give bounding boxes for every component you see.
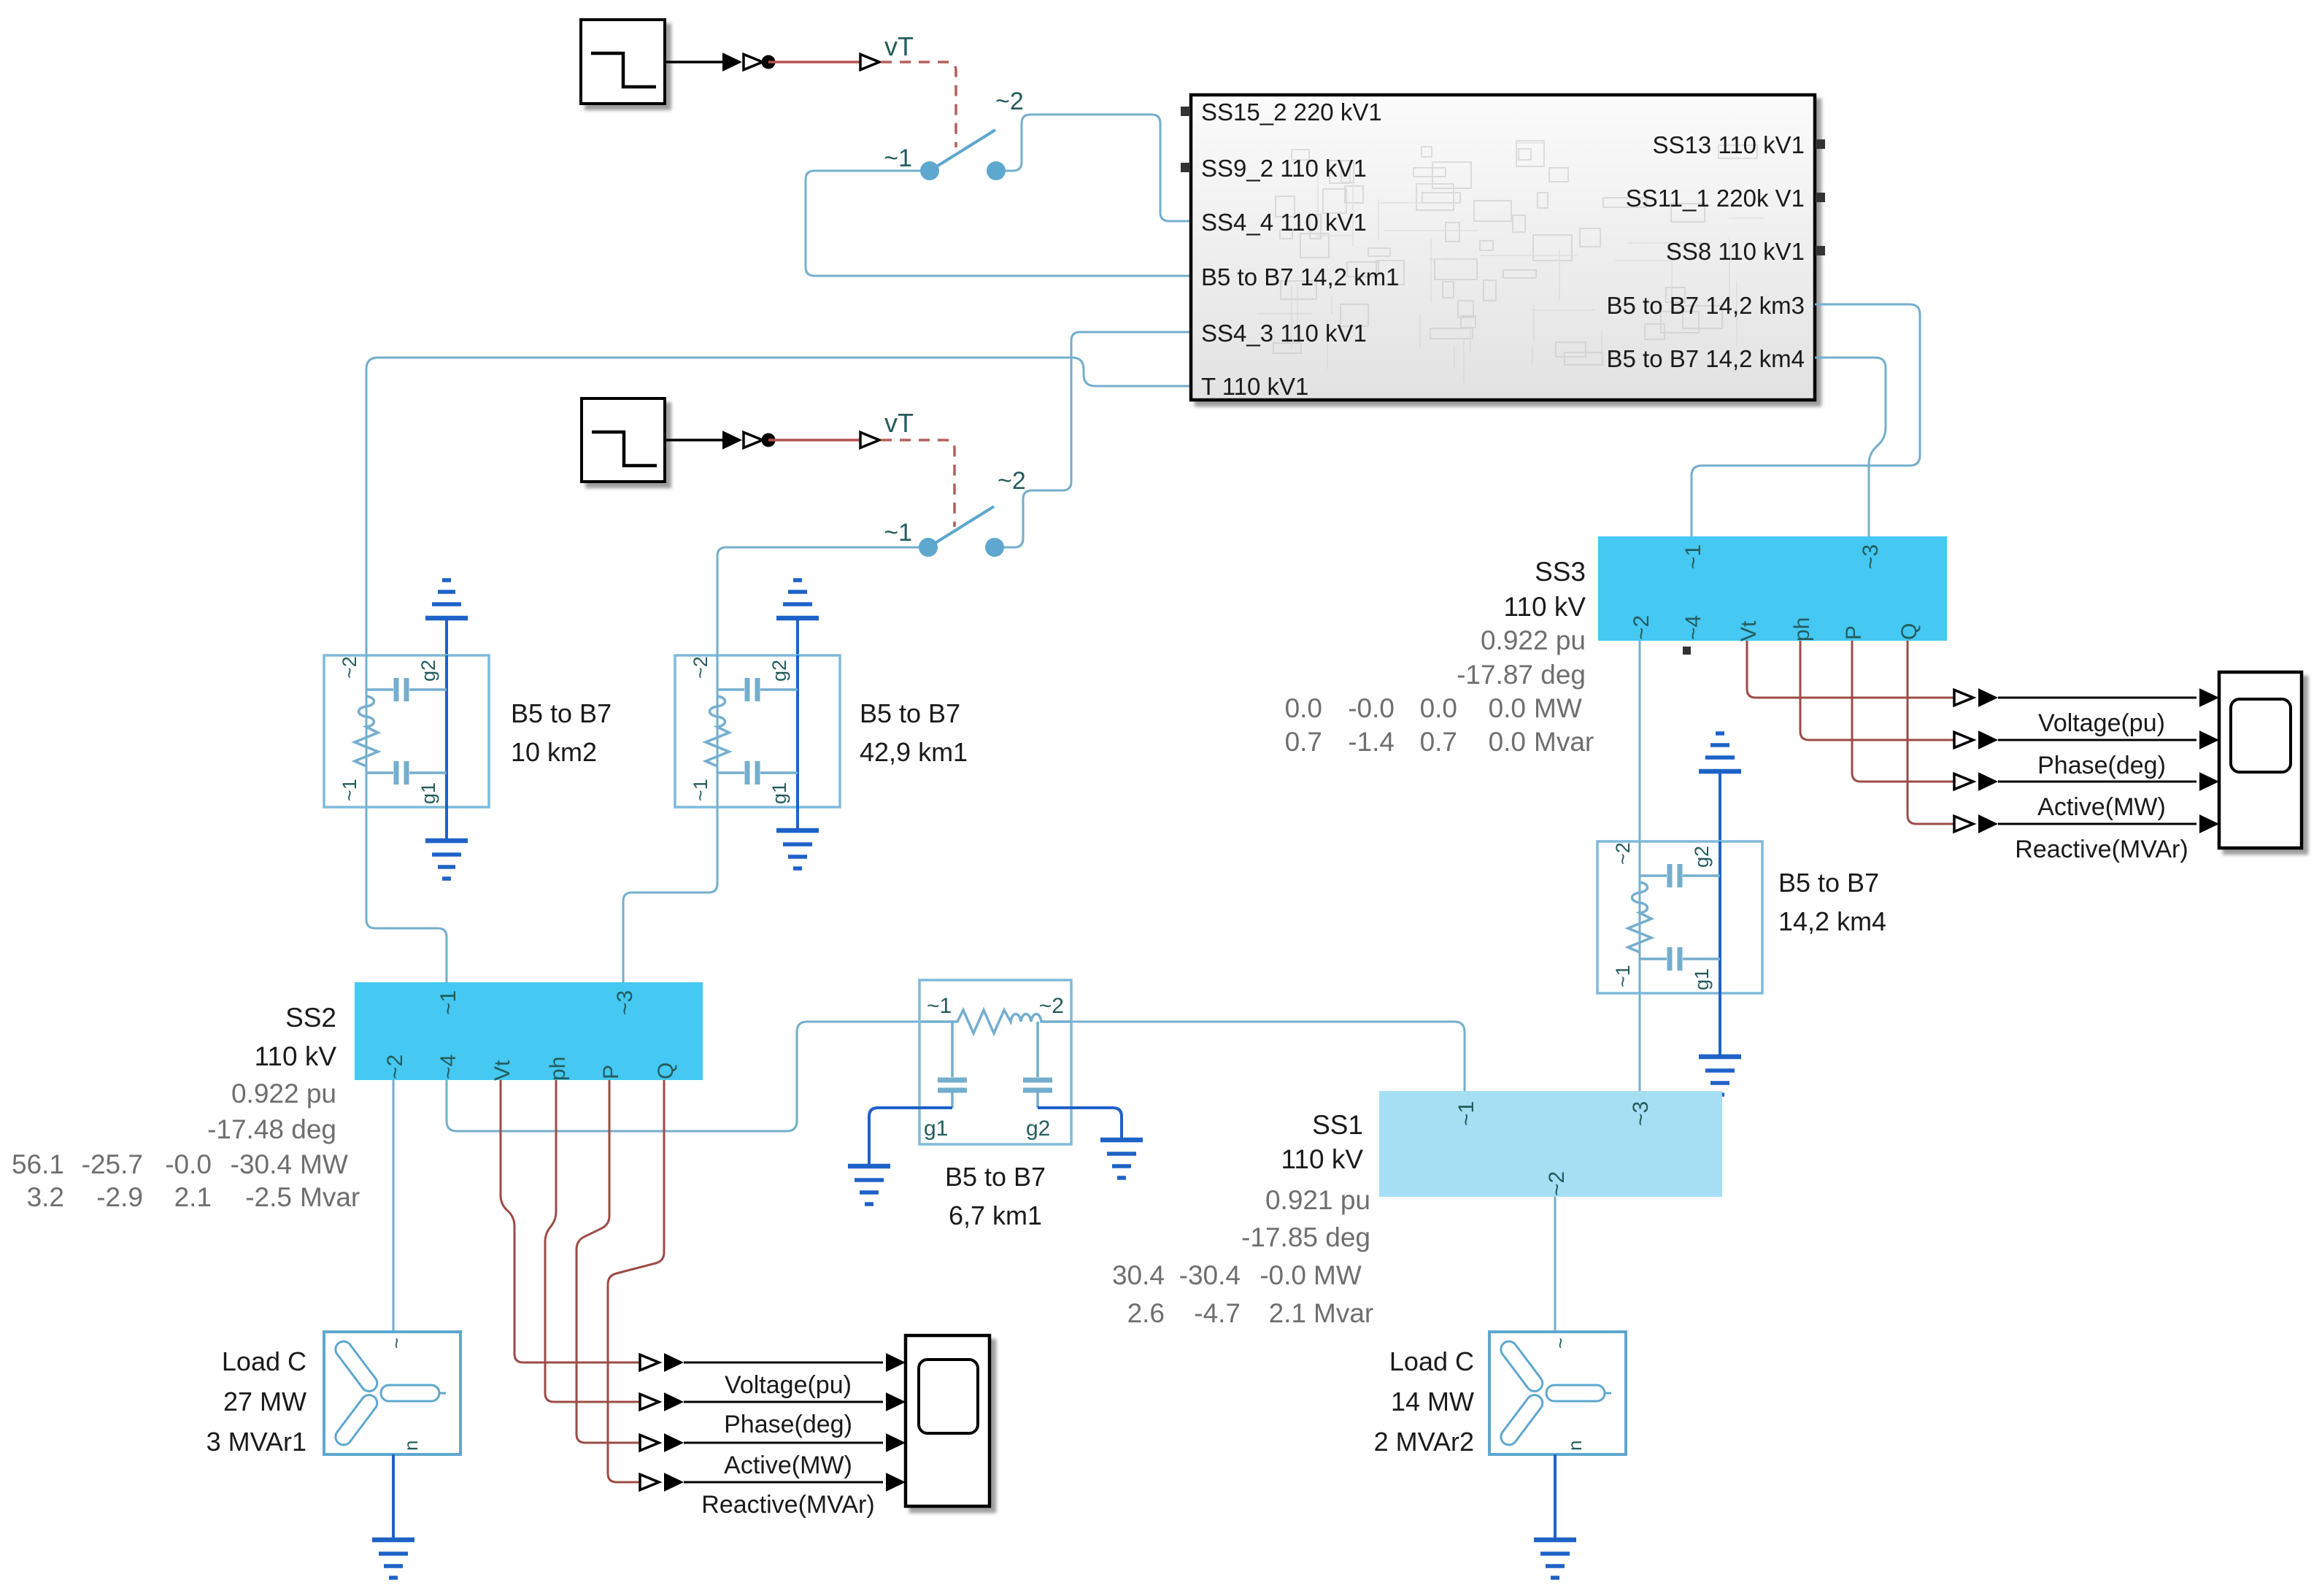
svg-text:0.0: 0.0 bbox=[1285, 693, 1322, 723]
svg-text:Q: Q bbox=[1897, 623, 1921, 640]
svg-text:30.4: 30.4 bbox=[1112, 1260, 1165, 1290]
svg-text:~1: ~1 bbox=[1681, 544, 1705, 569]
svg-text:~1: ~1 bbox=[927, 994, 952, 1018]
svg-text:~2: ~2 bbox=[690, 656, 711, 679]
ground right of line 6,7 km1 bbox=[1100, 1138, 1143, 1143]
svg-text:T 110 kV1: T 110 kV1 bbox=[1201, 373, 1308, 400]
svg-text:Mvar: Mvar bbox=[1314, 1298, 1373, 1328]
wire: SS2 Vt to Voltage label bbox=[501, 1080, 643, 1362]
svg-text:3 MVAr1: 3 MVAr1 bbox=[207, 1427, 306, 1457]
ground above line 14,2 km4 (g2) bbox=[1699, 769, 1741, 774]
svg-text:110 kV: 110 kV bbox=[1504, 592, 1586, 622]
svg-text:B5 to B7: B5 to B7 bbox=[1778, 868, 1879, 898]
ground below Load C 14MW bbox=[1534, 1538, 1576, 1543]
signal label row Active(MW) (bottom) bbox=[640, 1435, 659, 1450]
ground wire below Load C 27MW bbox=[392, 1454, 395, 1540]
ground wire g2 of line 6,7 km1 bbox=[1038, 1108, 1122, 1140]
svg-text:SS8 110 kV1: SS8 110 kV1 bbox=[1666, 238, 1805, 265]
svg-text:B5 to B7: B5 to B7 bbox=[511, 698, 612, 728]
svg-text:MW: MW bbox=[1314, 1260, 1362, 1290]
svg-text:0.922 pu: 0.922 pu bbox=[1481, 625, 1586, 655]
svg-text:~2: ~2 bbox=[1629, 615, 1654, 640]
svg-text:vT: vT bbox=[884, 31, 914, 61]
svg-text:g2: g2 bbox=[417, 660, 439, 682]
svg-text:g1: g1 bbox=[924, 1117, 948, 1141]
svg-text:Active(MW): Active(MW) bbox=[724, 1452, 852, 1479]
wire: SS2 ~3 up through line 42,9 km1 bbox=[623, 655, 717, 982]
wire: breaker2 ~2 to subsystem port SS4_3 110 kV1 bbox=[995, 332, 1191, 547]
wire: SS3 ph to Phase label bbox=[1800, 641, 1955, 740]
svg-text:P: P bbox=[1842, 625, 1866, 640]
svg-text:Mvar: Mvar bbox=[1534, 727, 1594, 757]
signal label row Reactive(MVAr) (right) bbox=[1954, 816, 1973, 831]
faint subsystem preview content bbox=[1257, 141, 1764, 382]
wire: line 6,7 km1 ~2 to SS1 ~1 bbox=[1071, 1022, 1465, 1091]
subsystem output port stub SS13 bbox=[1816, 139, 1825, 149]
svg-text:-30.4: -30.4 bbox=[231, 1149, 292, 1179]
svg-text:Reactive(MVAr): Reactive(MVAr) bbox=[701, 1491, 874, 1519]
distributed line block B5 to B7 10 km2 bbox=[324, 655, 489, 807]
dashed control wire to breaker 2 bbox=[881, 440, 954, 527]
svg-text:Reactive(MVAr): Reactive(MVAr) bbox=[2015, 836, 2188, 863]
ground below line 10 km2 bbox=[445, 807, 448, 841]
svg-text:~3: ~3 bbox=[613, 990, 637, 1015]
svg-text:ph: ph bbox=[1790, 617, 1814, 641]
breaker 1 contact dots bbox=[920, 161, 939, 180]
bus block SS1 bbox=[1379, 1091, 1722, 1197]
svg-text:Active(MW): Active(MW) bbox=[2037, 793, 2166, 821]
svg-text:Mvar: Mvar bbox=[300, 1182, 360, 1212]
svg-text:-17.85 deg: -17.85 deg bbox=[1241, 1222, 1370, 1252]
svg-text:MW: MW bbox=[300, 1149, 348, 1179]
svg-text:0.0: 0.0 bbox=[1489, 693, 1526, 723]
wire: SS2 ~1 up through line 10 km2 bbox=[366, 655, 447, 982]
step source block Step1 bbox=[581, 20, 665, 104]
svg-text:B5 to B7 14,2 km4: B5 to B7 14,2 km4 bbox=[1607, 345, 1805, 372]
scope block (bottom) bbox=[906, 1335, 990, 1506]
wire: SS3 Q to Reactive label bbox=[1908, 641, 1955, 824]
svg-text:ph: ph bbox=[546, 1057, 570, 1081]
ground below line 14,2 km4 (g1) bbox=[1719, 993, 1721, 1057]
svg-text:SS13 110 kV1: SS13 110 kV1 bbox=[1652, 131, 1805, 158]
bus block SS2 bbox=[355, 982, 703, 1080]
svg-text:27 MW: 27 MW bbox=[223, 1387, 306, 1416]
ground above line 10 km2 bbox=[425, 616, 468, 621]
load block Load C 14 MW 2 MVAr2 bbox=[1489, 1332, 1626, 1454]
wire: port B5 to B7 14,2 km4 to SS3 ~3 bbox=[1815, 358, 1886, 536]
svg-text:Load C: Load C bbox=[222, 1346, 306, 1376]
svg-text:6,7 km1: 6,7 km1 bbox=[949, 1200, 1042, 1230]
svg-text:~2: ~2 bbox=[383, 1055, 407, 1079]
svg-text:g1: g1 bbox=[1691, 968, 1713, 990]
vT tag open triangle 2 bbox=[860, 432, 879, 447]
signal label row Reactive(MVAr) (bottom) bbox=[640, 1474, 659, 1489]
wire: breaker2 ~1 down to line 42,9 km1 bbox=[717, 547, 928, 655]
svg-text:~2: ~2 bbox=[998, 467, 1026, 495]
wire: Step2 output to converter bbox=[664, 439, 724, 442]
svg-text:~2: ~2 bbox=[1612, 842, 1634, 865]
signal arrowhead into conversion bbox=[722, 53, 742, 72]
ground left of line 6,7 km1 bbox=[848, 1164, 890, 1169]
svg-text:B5 to B7 14,2 km3: B5 to B7 14,2 km3 bbox=[1607, 292, 1805, 319]
svg-text:Voltage(pu): Voltage(pu) bbox=[725, 1371, 852, 1399]
svg-text:42,9 km1: 42,9 km1 bbox=[860, 737, 968, 767]
svg-text:-17.87 deg: -17.87 deg bbox=[1457, 660, 1586, 690]
svg-text:~2: ~2 bbox=[995, 88, 1024, 115]
ground wire g1 of line 6,7 km1 bbox=[869, 1108, 952, 1166]
svg-text:56.1: 56.1 bbox=[12, 1149, 64, 1179]
svg-text:-17.48 deg: -17.48 deg bbox=[207, 1114, 336, 1144]
svg-text:-0.0: -0.0 bbox=[1348, 693, 1395, 723]
svg-text:B5 to B7: B5 to B7 bbox=[860, 698, 960, 728]
bus block SS3 bbox=[1598, 536, 1947, 641]
svg-text:~1: ~1 bbox=[1612, 965, 1634, 987]
wire: line 10 km2 top up and right into subsystem port T 110 kV1 bbox=[366, 358, 1191, 655]
wire: SS2 ~2 down to Load C 27MW bbox=[393, 1080, 395, 1332]
svg-text:-1.4: -1.4 bbox=[1348, 727, 1395, 757]
svg-text:0.0: 0.0 bbox=[1420, 693, 1457, 723]
vT tag open triangle bbox=[860, 54, 879, 69]
svg-text:~1: ~1 bbox=[690, 779, 711, 801]
svg-text:0.7: 0.7 bbox=[1420, 727, 1457, 757]
svg-text:~1: ~1 bbox=[1454, 1101, 1478, 1126]
svg-text:Load C: Load C bbox=[1389, 1346, 1474, 1376]
wire: breaker1 ~2 to subsystem port SS4_4 110 kV1 bbox=[996, 115, 1191, 221]
svg-text:~1: ~1 bbox=[436, 990, 460, 1015]
SS3 unconnected port stub ~4 bbox=[1683, 647, 1691, 655]
svg-text:SS1: SS1 bbox=[1312, 1110, 1363, 1140]
svg-text:~4: ~4 bbox=[1681, 615, 1705, 640]
signal label row Voltage(pu) (right) bbox=[1954, 690, 1973, 705]
wire: control signal to vT tag 2 bbox=[768, 439, 860, 442]
svg-text:-4.7: -4.7 bbox=[1194, 1298, 1241, 1328]
ground wire below Load C 14MW bbox=[1554, 1454, 1557, 1540]
svg-text:-30.4: -30.4 bbox=[1179, 1260, 1241, 1290]
wire: SS3 P to Active label bbox=[1852, 641, 1955, 782]
svg-text:B5 to B7 14,2 km1: B5 to B7 14,2 km1 bbox=[1201, 263, 1400, 290]
svg-text:~1: ~1 bbox=[884, 519, 912, 547]
ground below Load C 27MW bbox=[372, 1538, 414, 1543]
signal label row Phase(deg) (right) bbox=[1954, 732, 1973, 747]
svg-text:0.922 pu: 0.922 pu bbox=[231, 1079, 336, 1109]
svg-text:SS15_2 220 kV1: SS15_2 220 kV1 bbox=[1201, 99, 1382, 126]
wire: SS2 ph to Phase label bbox=[545, 1080, 643, 1402]
breaker 1 blade bbox=[930, 130, 995, 171]
svg-text:0.0: 0.0 bbox=[1489, 727, 1526, 757]
svg-text:~1: ~1 bbox=[339, 779, 360, 801]
scope block (right) bbox=[2219, 672, 2302, 848]
wire: SS2 Q to Reactive label bbox=[608, 1080, 664, 1482]
svg-text:g1: g1 bbox=[417, 782, 439, 804]
distributed line block B5 to B7 42,9 km1 bbox=[675, 655, 840, 807]
svg-text:~2: ~2 bbox=[1039, 994, 1064, 1018]
svg-text:vT: vT bbox=[884, 408, 914, 438]
svg-text:~: ~ bbox=[385, 1338, 407, 1349]
signal label row Active(MW) (right) bbox=[1954, 774, 1973, 789]
svg-text:g2: g2 bbox=[1026, 1117, 1050, 1141]
svg-text:SS2: SS2 bbox=[285, 1003, 336, 1033]
svg-text:Vt: Vt bbox=[1737, 620, 1761, 641]
wire: breaker1 ~1 to subsystem port B5 to B7 14,2 km1 bbox=[806, 171, 1191, 276]
svg-text:g1: g1 bbox=[768, 782, 790, 804]
subsystem input port stub SS15_2 bbox=[1181, 107, 1190, 116]
svg-text:SS11_1 220k V1: SS11_1 220k V1 bbox=[1626, 185, 1805, 212]
wire: SS2 ~4 to line 6,7 km1 ~1 bbox=[447, 1022, 921, 1131]
svg-text:Phase(deg): Phase(deg) bbox=[2037, 752, 2166, 779]
wire: Step1 output to converter bbox=[665, 61, 724, 63]
ground below line 42,9 km1 bbox=[796, 807, 799, 830]
svg-text:-0.0: -0.0 bbox=[165, 1149, 212, 1179]
ground above line 42,9 km1 bbox=[776, 616, 819, 621]
distributed line block B5 to B7 6,7 km1 bbox=[919, 980, 1071, 1144]
svg-text:MW: MW bbox=[1534, 693, 1582, 723]
dashed control wire to breaker 1 bbox=[881, 62, 956, 147]
signal label row Voltage(pu) (bottom) bbox=[640, 1354, 659, 1370]
svg-text:-25.7: -25.7 bbox=[82, 1149, 143, 1179]
svg-text:3.2: 3.2 bbox=[27, 1182, 64, 1212]
svg-text:0.7: 0.7 bbox=[1285, 727, 1322, 757]
breaker 2 contact dots bbox=[919, 538, 938, 557]
wire: port B5 to B7 14,2 km3 to SS3 ~1 bbox=[1692, 304, 1920, 536]
svg-text:2.6: 2.6 bbox=[1127, 1298, 1165, 1328]
svg-text:B5 to B7: B5 to B7 bbox=[945, 1162, 1046, 1192]
svg-text:~3: ~3 bbox=[1629, 1101, 1653, 1126]
conversion open triangle 2 with dot bbox=[744, 432, 763, 447]
distributed line block B5 to B7 14,2 km4 bbox=[1597, 841, 1762, 993]
svg-text:-0.0: -0.0 bbox=[1260, 1260, 1306, 1290]
subsystem output port stub SS8 bbox=[1816, 246, 1825, 255]
svg-text:2.1: 2.1 bbox=[174, 1182, 212, 1212]
svg-text:n: n bbox=[400, 1441, 422, 1451]
svg-text:10 km2: 10 km2 bbox=[511, 737, 597, 767]
svg-text:Vt: Vt bbox=[490, 1060, 514, 1081]
subsystem input port stub SS9_2 bbox=[1181, 163, 1190, 172]
subsystem output port stub SS11_1 bbox=[1816, 193, 1825, 202]
svg-text:Voltage(pu): Voltage(pu) bbox=[2038, 709, 2165, 737]
svg-text:2 MVAr2: 2 MVAr2 bbox=[1374, 1427, 1474, 1457]
step source block Step2 bbox=[582, 398, 665, 482]
svg-text:~2: ~2 bbox=[339, 656, 360, 679]
svg-text:-2.5: -2.5 bbox=[245, 1182, 292, 1212]
signal label row Phase(deg) (bottom) bbox=[640, 1394, 659, 1409]
svg-text:110 kV: 110 kV bbox=[255, 1041, 337, 1071]
svg-text:~1: ~1 bbox=[884, 144, 912, 172]
conversion open triangle with junction dot bbox=[744, 54, 763, 69]
wire: SS1 ~2 down to Load C 14MW bbox=[1554, 1197, 1557, 1332]
svg-text:SS3: SS3 bbox=[1535, 557, 1586, 587]
svg-text:~: ~ bbox=[1549, 1338, 1571, 1349]
svg-text:0.921 pu: 0.921 pu bbox=[1265, 1185, 1370, 1215]
svg-text:~4: ~4 bbox=[436, 1055, 460, 1079]
wire: control signal to vT tag bbox=[768, 61, 860, 63]
svg-text:SS4_3 110 kV1: SS4_3 110 kV1 bbox=[1201, 320, 1367, 347]
svg-text:Q: Q bbox=[654, 1063, 678, 1079]
svg-text:Phase(deg): Phase(deg) bbox=[724, 1411, 852, 1438]
signal arrowhead into conversion 2 bbox=[722, 431, 742, 450]
svg-text:~2: ~2 bbox=[1545, 1171, 1569, 1196]
svg-text:SS9_2 110 kV1: SS9_2 110 kV1 bbox=[1201, 155, 1367, 182]
svg-text:SS4_4 110 kV1: SS4_4 110 kV1 bbox=[1201, 209, 1367, 236]
svg-text:-2.9: -2.9 bbox=[96, 1182, 143, 1212]
svg-text:n: n bbox=[1564, 1441, 1586, 1451]
svg-text:14 MW: 14 MW bbox=[1391, 1387, 1474, 1416]
svg-text:g2: g2 bbox=[768, 660, 790, 682]
load block Load C 27 MW 3 MVAr1 bbox=[324, 1332, 460, 1454]
svg-text:14,2 km4: 14,2 km4 bbox=[1778, 906, 1886, 936]
svg-text:2.1: 2.1 bbox=[1269, 1298, 1306, 1328]
svg-text:~3: ~3 bbox=[1859, 544, 1883, 569]
breaker 2 blade bbox=[928, 506, 994, 547]
svg-text:P: P bbox=[599, 1065, 623, 1079]
svg-text:g2: g2 bbox=[1691, 846, 1713, 868]
subsystem block SS15 area (large gray block) bbox=[1191, 95, 1815, 400]
svg-text:110 kV: 110 kV bbox=[1281, 1144, 1364, 1174]
wire: SS2 P to Active label bbox=[576, 1080, 643, 1443]
wire: SS3 Vt to Voltage label bbox=[1747, 641, 1955, 698]
wire: SS3 ~2 down through line 14,2 km4 to SS1 ~3 bbox=[1639, 641, 1641, 1091]
